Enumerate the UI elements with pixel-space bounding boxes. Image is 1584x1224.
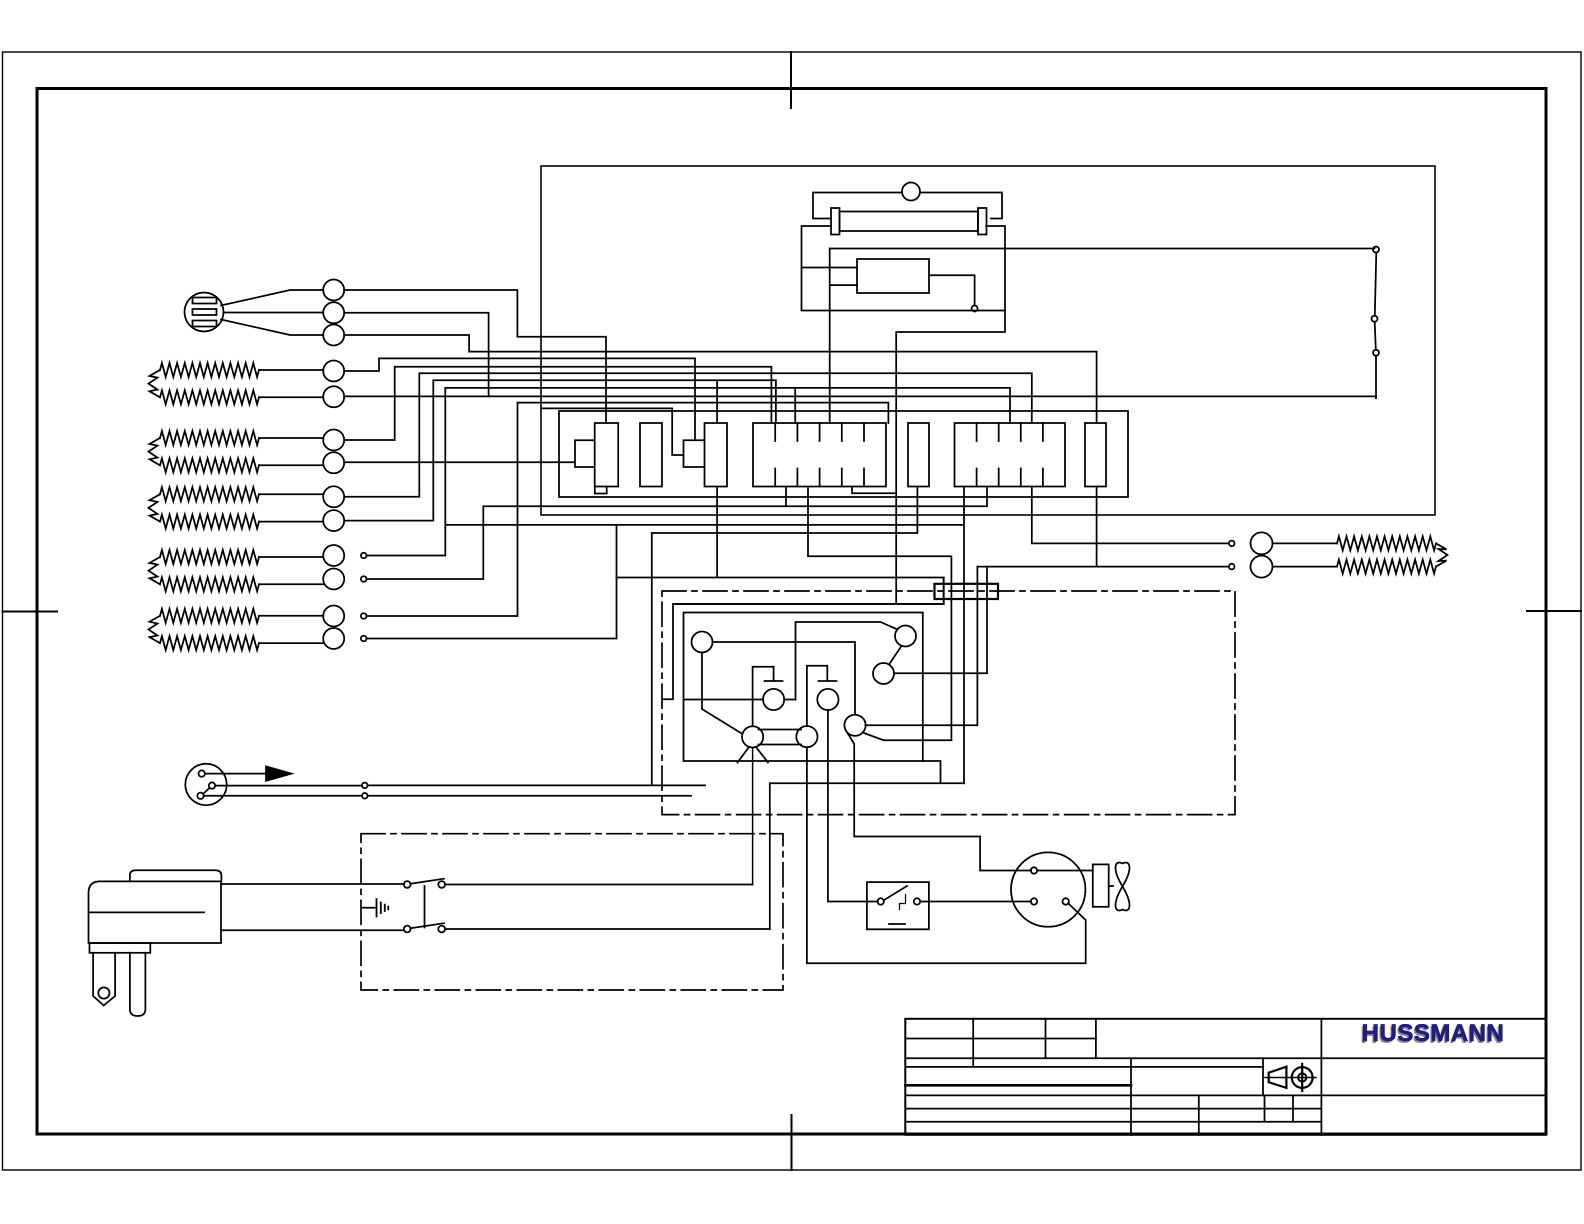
thermostat X2 contact	[817, 689, 838, 710]
lamp end cap left	[831, 208, 840, 235]
wire supply drop left	[673, 603, 944, 605]
wire T2 plug bottom lead	[716, 487, 718, 578]
terminal E4b	[361, 576, 367, 582]
heater H6 right point	[1436, 543, 1448, 566]
wire E3 bottom lead	[259, 521, 323, 523]
wire ballast stub upper	[802, 267, 858, 269]
plug base flange	[90, 943, 151, 953]
heater E3 element top	[160, 487, 259, 501]
relay contact I	[844, 715, 865, 736]
wire E3 top lead	[259, 493, 323, 495]
heater E1 left point	[149, 370, 161, 397]
projection symbol centerline	[1265, 1077, 1316, 1079]
wire E4 bottom lead	[259, 583, 323, 585]
ground symbol	[377, 899, 389, 917]
connector J2 multiblock	[955, 423, 1066, 487]
wire motor top internal	[1037, 870, 1093, 872]
zone tick left	[3, 611, 58, 613]
wire S1 pole1 out	[445, 884, 752, 886]
wire receptacle line B cont	[368, 795, 691, 797]
connector J2 pin dividers bottom	[977, 469, 1043, 487]
wire X2 drop to fan switch	[828, 710, 878, 901]
wire T2 top tee	[716, 380, 718, 423]
lamp holder circle	[902, 183, 920, 201]
heater E3 left point	[149, 494, 161, 521]
motor pin left	[1031, 898, 1037, 904]
thermal cutout lower contact	[1373, 350, 1379, 356]
projection symbol target inner	[1298, 1073, 1306, 1081]
wire B to C diagonal	[889, 646, 902, 665]
title block top row line	[905, 1038, 1096, 1040]
relay contact C	[873, 663, 894, 684]
heater E4 element bottom	[160, 577, 259, 591]
wire plug cord bottom	[221, 929, 404, 931]
wire J1 pin tee	[794, 388, 796, 423]
heater E4 left point	[149, 557, 161, 584]
switch S1 pole 1 left	[404, 881, 411, 888]
wire lamp supply to cutout	[830, 248, 1375, 250]
link bar F G	[759, 730, 802, 745]
title block row a divider	[972, 1058, 974, 1067]
projection symbol target circle	[1292, 1067, 1313, 1088]
heater E2 left point	[149, 438, 161, 465]
wire lamp feed drop	[830, 249, 857, 424]
motor pin right	[1063, 898, 1069, 904]
terminal A	[362, 783, 368, 789]
wire H6a lead	[1273, 542, 1338, 544]
connector T2 plug	[684, 423, 728, 487]
terminal H6a	[1229, 541, 1235, 547]
switch S1 pole 2 right	[438, 926, 445, 933]
connector J1 pin dividers bottom	[775, 469, 864, 487]
title block top verticals	[973, 1019, 1096, 1058]
wire nut P2	[323, 302, 344, 323]
wire photocell lead 1	[221, 290, 323, 306]
wire G drop long	[807, 747, 1086, 963]
heater E2 element top	[160, 431, 259, 445]
wire S1 pole2 out	[445, 928, 770, 930]
wire nut E5b	[323, 628, 344, 649]
wire relay box supply	[662, 578, 944, 700]
title block symbol cell	[1262, 1058, 1264, 1095]
wire K3 bottom drop	[1096, 487, 1098, 567]
photocell grid bar 3	[193, 321, 217, 327]
wire E2 top lead	[259, 437, 323, 439]
wire F drop to switch	[752, 748, 754, 885]
wire E3b riser to bus	[344, 380, 776, 520]
wire E1 top lead	[259, 369, 323, 371]
defrost receptacle body	[185, 764, 226, 805]
switch S1 blade 1	[411, 879, 445, 884]
connector K2 block	[908, 423, 929, 487]
wire arrow lead	[205, 773, 266, 775]
terminal E5b	[361, 636, 367, 642]
svg-text:HUSSMANN: HUSSMANN	[1362, 1020, 1505, 1047]
fan motor body	[1011, 852, 1085, 926]
fan switch contact left	[878, 898, 884, 904]
fan blades	[1116, 863, 1130, 911]
motor pin top	[1031, 867, 1037, 873]
wire nut H6a	[1251, 532, 1273, 554]
lamp holder box	[813, 193, 1002, 219]
plug mid line	[89, 911, 204, 913]
run capacitor	[1093, 864, 1109, 906]
zone tick right	[1527, 610, 1581, 612]
heater H6 element bottom	[1337, 560, 1436, 574]
wire nut E4b	[323, 569, 344, 590]
wire nut P1	[323, 280, 344, 301]
wire H6b lead	[1273, 566, 1338, 568]
heater E5 element bottom	[160, 636, 259, 650]
plug flange top	[130, 870, 222, 881]
cable clamp	[935, 584, 999, 599]
terminal E4a	[361, 553, 367, 559]
heater E3 element bottom	[160, 515, 259, 529]
receptacle lever	[204, 789, 210, 794]
wire nut E2a	[323, 430, 344, 451]
wire I right lead	[866, 567, 978, 726]
thermostat X1 contact	[763, 689, 784, 710]
receptacle pin 2	[209, 782, 215, 788]
wire T1 bottom jumper	[595, 487, 607, 494]
thermal cutout middle contact	[1372, 316, 1378, 322]
heater E5 element top	[160, 609, 259, 623]
photocell body	[185, 293, 224, 332]
fan switch box	[867, 882, 929, 929]
plug prong blade	[130, 953, 146, 1016]
terminal B	[362, 793, 368, 799]
wire plug cord top	[221, 883, 404, 885]
wire nut E5a	[323, 606, 344, 627]
wire E5 bottom lead	[259, 642, 323, 644]
wire receptacle line A cont	[368, 784, 705, 786]
projection symbol cone	[1269, 1067, 1287, 1088]
wire jumper link vertical	[616, 525, 618, 578]
title block row b	[905, 1108, 1321, 1110]
wire X1 left lead	[684, 699, 764, 701]
wire E4b riser	[367, 487, 988, 580]
connector J2 pin dividers top	[977, 423, 1043, 441]
arrow hatch	[269, 767, 275, 780]
connector K3 block	[1085, 423, 1106, 487]
wire J1 pin5 bottom jog	[852, 487, 896, 494]
wire E4 top lead	[259, 556, 323, 558]
wire nut E3b	[323, 510, 344, 531]
plug prong ground	[93, 953, 115, 1006]
wire X1 right lead	[784, 699, 795, 701]
zone tick bottom	[791, 1115, 793, 1170]
heater H6 element top	[1337, 536, 1436, 550]
wire E2a riser to bus	[344, 367, 771, 440]
heater E5 left point	[149, 616, 161, 643]
wire J1 pin3 bottom lead	[785, 487, 787, 507]
fan switch blade	[884, 886, 907, 900]
wire nut P3	[323, 325, 344, 346]
connector T1 plug	[575, 423, 618, 487]
switch S1 blade 2	[411, 923, 445, 928]
switch S1 link	[424, 886, 426, 928]
wire T2 plug feed bus	[617, 578, 944, 605]
thermal cutout upper contact	[1373, 247, 1379, 253]
wire A to F diagonal	[702, 653, 743, 735]
wire nut H6b	[1251, 556, 1273, 578]
dashed control box	[662, 591, 1235, 815]
wire C to clamp riser	[894, 567, 987, 674]
heater E1 element bottom	[160, 390, 259, 404]
wire J2 pin4 bottom drop	[1032, 487, 1229, 544]
fan switch mark	[889, 923, 905, 925]
wire E4a riser	[367, 388, 1011, 556]
connector J1 pin dividers top	[775, 423, 864, 441]
arrow head	[266, 766, 292, 780]
wire photocell c1 routing	[344, 290, 606, 423]
wire ballast to lamp circuit	[929, 275, 975, 305]
title block row c	[905, 1121, 1321, 1123]
wire E2b to plug T1	[344, 461, 575, 463]
wire photocell lead 3	[221, 320, 323, 336]
thermostat X2 bar	[807, 666, 837, 726]
wire E3a riser to bus	[344, 373, 1032, 497]
wire nut E1b	[323, 386, 344, 407]
photocell grid bar 2	[193, 309, 217, 315]
ballast enclosure	[802, 226, 1006, 311]
wire nut E2b	[323, 452, 344, 473]
relay contact F	[742, 726, 763, 747]
title block heavy line	[905, 1084, 1131, 1087]
receptacle pin 1	[199, 770, 205, 776]
photocell grid bar 1	[193, 298, 217, 304]
relay contact B	[895, 626, 916, 647]
wire T2 stem lead	[541, 408, 684, 455]
title block bottom verticals	[1199, 1095, 1293, 1134]
terminal E5a	[361, 613, 367, 619]
wire J1 pin4 bottom drop	[808, 487, 951, 741]
wire photocell c3 bus	[344, 335, 1096, 423]
receptacle pin 3	[197, 793, 203, 799]
wire capacitor to fan	[1109, 885, 1113, 887]
wire receptacle line A	[215, 785, 362, 787]
wire E1 bottom lead	[259, 396, 323, 398]
zone tick top	[790, 52, 792, 108]
wire E5 top lead	[259, 615, 323, 617]
wire F fan diagonal right	[756, 747, 768, 763]
wire A to I	[713, 642, 856, 715]
wire F fan diagonal left	[738, 747, 750, 763]
dashed raceway box	[361, 834, 783, 990]
heater E1 element top	[160, 363, 259, 377]
prong hole	[98, 987, 109, 998]
wire E5b riser	[367, 578, 617, 639]
wire cutout return drop	[1375, 356, 1377, 398]
wire nut E1a	[323, 361, 344, 382]
wire lamp enclosure drop	[896, 311, 1005, 605]
title block outer	[905, 1019, 1545, 1135]
title block band divider 1	[905, 1057, 1545, 1059]
title block vertical mid	[1130, 1058, 1132, 1135]
wire clamp riser center	[963, 525, 965, 783]
relay contact G	[796, 726, 817, 747]
wire relay box bottom loop	[770, 761, 964, 929]
fluorescent tube	[840, 212, 979, 232]
wire photocell c2 drop	[344, 313, 488, 397]
enclosure box (case outline)	[541, 166, 1435, 515]
fan switch hook	[900, 895, 906, 910]
wire E1b line to lamp cutout	[344, 396, 1376, 398]
connector J1 multiblock	[753, 423, 886, 487]
wire B feed	[796, 622, 898, 700]
lamp end cap right	[978, 208, 987, 235]
fan switch contact right	[914, 898, 920, 904]
heater bus lower right	[977, 566, 1229, 568]
wire E2 bottom lead	[259, 464, 323, 466]
terminal strip enclosure	[559, 411, 1128, 497]
node lamp circuit terminal	[972, 306, 978, 312]
wire receptacle line B	[204, 795, 362, 797]
terminal H6b	[1229, 564, 1235, 570]
relay contact A	[692, 632, 713, 653]
wire nut E3a	[323, 486, 344, 507]
wire nut E4a	[323, 545, 344, 566]
ballast	[857, 259, 929, 293]
title block row a	[905, 1066, 1263, 1068]
title block vertical logo cell	[1320, 1019, 1322, 1135]
thermal cutout blade lower	[1375, 322, 1376, 350]
relay box	[684, 613, 923, 762]
wire photocell lead 2	[224, 312, 324, 314]
wire switch to motor	[920, 901, 1031, 903]
connector K1 block	[640, 423, 662, 487]
title block band divider 2	[905, 1094, 1545, 1096]
wire K2 bottom drop	[652, 487, 918, 786]
switch S1 pole 2 left	[404, 926, 411, 933]
projection symbol target axis	[1301, 1064, 1303, 1091]
heater E2 element bottom	[160, 458, 259, 472]
wire I diagonal drop	[848, 733, 1032, 871]
heater E4 element top	[160, 550, 259, 564]
wire I diagonal to J1	[863, 733, 952, 741]
wire E5a riser to bus	[367, 403, 889, 616]
thermostat X1 bar	[753, 667, 783, 727]
ground stub	[362, 907, 375, 909]
switch S1 pole 1 right	[438, 881, 445, 888]
thermal cutout blade upper	[1375, 253, 1377, 316]
power plug body	[89, 881, 222, 943]
wire E1a riser to bus	[344, 358, 695, 440]
wire E4a branch bus	[445, 487, 964, 525]
